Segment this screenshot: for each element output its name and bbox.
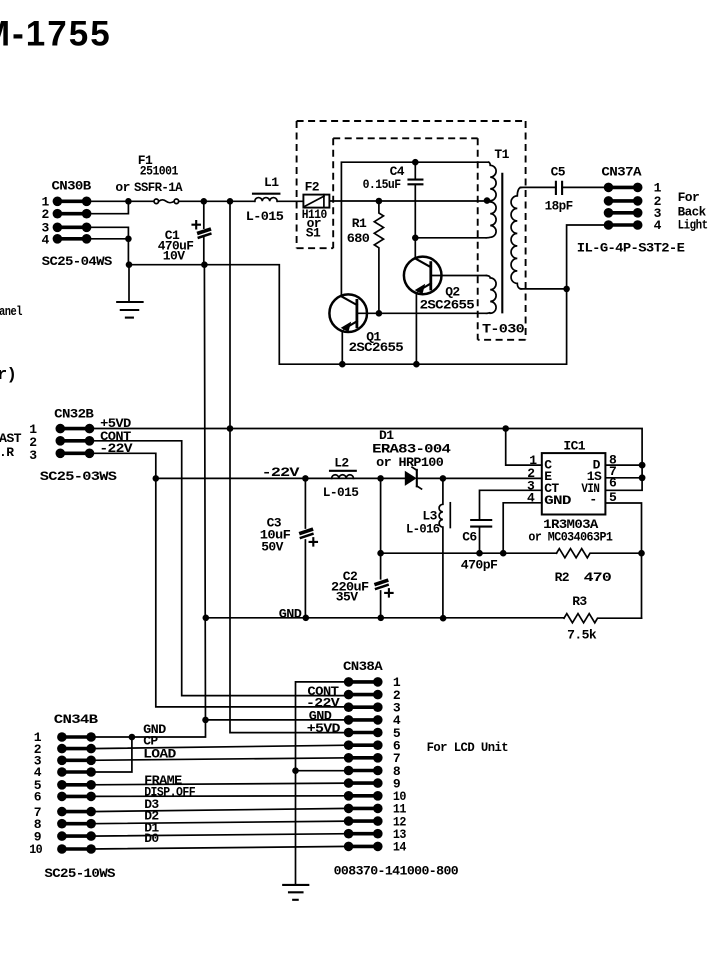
junction L3 top: [440, 475, 447, 482]
capacitor C3 (electrolytic): [299, 478, 317, 617]
junction CN34B pin1/pin4 tie: [129, 734, 136, 741]
junction CN38A pin8 / chassis column: [292, 767, 299, 774]
svg-text:CN30B: CN30B: [52, 178, 92, 193]
resistor R2: [557, 549, 642, 558]
wire IC pin3 to C6: [480, 490, 542, 519]
svg-text:For: For: [678, 190, 700, 205]
dashed box around fuse F2 (bottom edge): [297, 247, 334, 249]
svg-text:CN32B: CN32B: [54, 407, 94, 422]
label For Back Light: [678, 190, 708, 233]
svg-text:SSFR-1A: SSFR-1A: [134, 180, 183, 195]
svg-text:GND: GND: [279, 606, 302, 621]
fuse F2: [303, 195, 329, 208]
wire L1 to F2: [277, 200, 303, 202]
wire IC pin7 to +5VD tie: [605, 477, 642, 479]
svg-text:4: 4: [42, 233, 50, 248]
svg-text:6: 6: [609, 475, 617, 490]
svg-text:CN38A: CN38A: [343, 659, 383, 674]
junction +5VD column top: [227, 198, 234, 205]
junction C3 bottom: [303, 615, 310, 622]
wire CN38A pin4 branch from GND column: [206, 719, 349, 721]
wire LOAD: CN34B pin3 to CN38A pin7: [90, 758, 348, 761]
CN38A pin numbers 1-14: [393, 675, 407, 855]
transformer T1 primary winding: [486, 162, 496, 238]
wire CN38A pin8 to chassis column: [296, 770, 349, 772]
svg-text:10V: 10V: [163, 249, 185, 264]
junction CN30B pin1/pin2: [125, 198, 132, 205]
svg-text:F2: F2: [305, 179, 320, 194]
svg-text:C6: C6: [462, 529, 477, 544]
capacitor C2 (electrolytic): [374, 478, 393, 617]
svg-text:L-015: L-015: [323, 485, 359, 500]
wire -22V column down to CN38A pin3: [156, 478, 349, 707]
svg-text:-22V: -22V: [262, 465, 300, 480]
junction +5VD column crossing: [227, 425, 234, 432]
wire Q1 base to feedback winding bottom: [379, 312, 487, 314]
wire CONT net: CN32B pin2 down to CN38A pin2: [87, 441, 349, 696]
capacitor C4: [409, 162, 423, 257]
wire D3: CN34B pin7 to CN38A pin11: [90, 808, 348, 811]
svg-text:T-030: T-030: [482, 322, 525, 337]
svg-text:For LCD Unit: For LCD Unit: [427, 740, 509, 755]
svg-text:IL-G-4P-S3T2-E: IL-G-4P-S3T2-E: [577, 241, 685, 256]
svg-text:SC25-03WS: SC25-03WS: [40, 469, 117, 484]
svg-text:18pF: 18pF: [545, 198, 574, 213]
capacitor C1 (electrolytic) leads: [203, 201, 205, 264]
svg-text:50V: 50V: [261, 540, 283, 555]
junction CN30B pin3/pin4: [125, 236, 132, 243]
wire C5 to CN37A pin1: [562, 186, 608, 188]
junction C1 bottom / GND column: [201, 261, 208, 268]
svg-text:LOAD: LOAD: [143, 746, 176, 761]
svg-text:R1: R1: [352, 216, 367, 231]
junction C3 top: [302, 475, 309, 482]
inductor L2: [330, 471, 356, 479]
wire FRAME: CN34B pin5 to CN38A pin9: [90, 783, 348, 785]
svg-text:SC25-10WS: SC25-10WS: [44, 866, 115, 881]
wire IC pin4 to mid node: [503, 503, 542, 553]
wire T1 secondary top to C5: [521, 186, 556, 188]
svg-text:or MC034063P1: or MC034063P1: [528, 530, 613, 545]
transistor Q1: [329, 294, 378, 364]
CN32B pin numbers 1-3: [29, 422, 37, 463]
IC1 right pin labels D 1S VIN dash: [581, 458, 602, 507]
transformer T1 core: [501, 174, 503, 312]
junction L3 bottom: [440, 615, 447, 622]
CN30B pin numbers 1-4: [42, 195, 50, 248]
dashed inverter module boundary (outer box): [297, 121, 526, 340]
IC1 pin numbers 1-4: [527, 453, 537, 506]
CN37A pin numbers 1-4: [654, 181, 662, 234]
svg-text:S1: S1: [306, 225, 321, 240]
wire Q1 collector / top rail to T1 primary top: [341, 162, 488, 296]
svg-text:or HRP100: or HRP100: [376, 455, 444, 470]
label or SSFR-1A: [115, 180, 182, 195]
IC U1 box IC1: [542, 453, 606, 514]
wire CN30B pin4 to ground column: [87, 239, 128, 265]
svg-text:R3: R3: [572, 594, 587, 609]
junction IC GND pin node: [500, 550, 507, 557]
CN34B pin numbers 1-10: [29, 730, 43, 857]
junction R2 right / pin5 column: [638, 550, 645, 557]
junction Q1 base / R1 bottom: [376, 310, 383, 317]
svg-text:T1: T1: [494, 147, 509, 162]
wire CN30B pin2 jog up to pin1 node: [87, 201, 128, 213]
svg-text:D0: D0: [144, 831, 159, 846]
wire +V rail from CN30B node to fuse F1: [128, 200, 154, 202]
junction C1 top: [201, 198, 208, 205]
junction Q2 emitter on return rail: [413, 361, 420, 368]
wire CN30B pin3 jog down to pin4 node: [87, 227, 128, 239]
wire IC pin1 branch: [506, 429, 542, 466]
IC1 left pin labels C E CT GND: [544, 458, 571, 508]
junction C4 top: [412, 159, 419, 166]
connector CN32B pins 1-3: [56, 424, 95, 458]
wire ground rail to oscillator return: [129, 225, 609, 364]
svg-text:GND: GND: [544, 493, 571, 508]
svg-text:SC25-04WS: SC25-04WS: [42, 254, 113, 269]
junction C4 bottom / Q2 collector: [412, 235, 419, 242]
dashed oscillator inner box: [333, 138, 478, 339]
junction IC pin7 tie: [639, 474, 646, 481]
junction IC pin8 tie: [639, 462, 646, 469]
wire D0: CN34B pin10 to CN38A pin14: [90, 846, 348, 849]
wire IC pin5 down to R3: [605, 503, 641, 618]
junction C6 bottom: [476, 550, 483, 557]
wire +5VD column from top rail to CN38A pin5: [230, 201, 349, 732]
wire DISP.OFF: CN34B pin6 to CN38A pin10: [90, 795, 348, 798]
svg-text:3: 3: [29, 448, 37, 463]
svg-text:Light: Light: [678, 218, 708, 233]
svg-text:0.15uF: 0.15uF: [363, 177, 402, 192]
connector CN30B pins 1-4: [53, 197, 92, 244]
svg-text:CN34B: CN34B: [54, 712, 98, 727]
junction secondary bottom / CN37A pin4 column: [563, 286, 570, 293]
wire CN34B pin4 jog to pin1 GND: [90, 737, 132, 772]
svg-text:008370-141000-800: 008370-141000-800: [334, 864, 459, 879]
capacitor C5: [556, 182, 562, 194]
wire CN32B pin3 to -22V column: [87, 453, 156, 478]
resistor R3: [564, 614, 642, 623]
wire CP: CN34B pin2 to CN38A pin6: [90, 745, 348, 748]
junction T1 center tap: [484, 197, 491, 204]
svg-text:CN37A: CN37A: [601, 165, 641, 180]
svg-text:L-015: L-015: [246, 209, 284, 224]
junction C2 top / D1 anode node: [377, 475, 384, 482]
svg-text:680: 680: [347, 231, 370, 246]
svg-text:M-1755: M-1755: [0, 14, 112, 53]
wire C4 bottom to T1 primary bottom: [415, 237, 486, 239]
ground symbol stem (top left): [128, 265, 130, 302]
capacitor C6: [471, 520, 491, 553]
svg-text:L1: L1: [264, 175, 279, 190]
wire +5VD net: CN32B pin1 across to IC pins 8/7/6: [87, 429, 642, 491]
svg-text:4: 4: [654, 218, 662, 233]
plus sign C1: [193, 221, 200, 228]
inductor L3 with core: [439, 478, 450, 618]
junction -22V rail branch: [153, 475, 160, 482]
inductor L1: [253, 194, 279, 202]
svg-text:or: or: [115, 180, 129, 195]
wire D1: CN34B pin9 to CN38A pin13: [90, 834, 348, 836]
wire GND column from C1 to CN34B pin1: [90, 265, 205, 737]
wire GND rail: [205, 617, 564, 619]
junction ground rail start: [126, 261, 133, 268]
wire D1 cathode to IC pin2: [418, 477, 542, 479]
wire main rail F2 to T1 center tap: [329, 200, 487, 202]
connector CN38A pins 1-14: [344, 677, 383, 851]
transistor Q2: [404, 257, 486, 365]
svg-text:470pF: 470pF: [461, 558, 498, 573]
svg-text:r): r): [0, 366, 16, 385]
ground symbol (bottom chassis): [283, 885, 308, 900]
svg-text:35V: 35V: [336, 589, 358, 604]
svg-text:470: 470: [584, 570, 613, 585]
wire F1 to L1: [179, 200, 255, 202]
connector CN34B pins 1-10: [57, 732, 96, 854]
wire CN30B pin1 to fuse F1 junction: [87, 200, 128, 202]
wire IC pin8 to +5VD tie: [605, 464, 642, 466]
svg-text:2SC2655: 2SC2655: [349, 340, 404, 355]
svg-text:10: 10: [29, 842, 43, 857]
junction GND column / GND rail: [203, 615, 210, 622]
svg-text:2SC2655: 2SC2655: [420, 298, 475, 313]
svg-text:R2: R2: [555, 570, 570, 585]
transformer T1 secondary winding: [511, 187, 521, 289]
wire T1 secondary bottom to pin4 column: [521, 288, 567, 290]
wire mid line C2 tap to R2: [381, 552, 557, 554]
junction C2 column tap: [377, 550, 384, 557]
svg-text:L2: L2: [334, 455, 349, 470]
svg-text:+5VD: +5VD: [307, 721, 341, 736]
svg-text:251001: 251001: [140, 163, 179, 178]
connector CN37A pins 1-4: [604, 183, 643, 230]
capacitor C1 hatched plates: [197, 227, 212, 239]
svg-text:14: 14: [393, 840, 407, 855]
wire CN38A pin1 to chassis ground column: [296, 682, 349, 885]
wire D2: CN34B pin8 to CN38A pin12: [90, 821, 348, 824]
junction C2 bottom: [378, 615, 385, 622]
svg-text:anel: anel: [0, 304, 23, 319]
svg-text:L-016: L-016: [406, 521, 440, 536]
transformer T1 feedback winding: [486, 276, 496, 314]
wire -22V rail to diode D1: [156, 477, 405, 479]
ground (top left): [117, 302, 142, 318]
junction IC pin1 branch: [502, 425, 509, 432]
svg-text:6: 6: [34, 790, 42, 805]
svg-text:IC1: IC1: [563, 439, 585, 454]
junction R1 top: [376, 198, 383, 205]
IC1 pin numbers 8 7 6 5: [609, 452, 617, 505]
resistor R1: [374, 201, 383, 313]
svg-text:7.5k: 7.5k: [567, 627, 597, 642]
svg-text:C5: C5: [551, 165, 566, 180]
svg-text:-: -: [589, 492, 596, 507]
diode D1: [405, 467, 422, 489]
junction Q1 emitter on return rail: [339, 361, 346, 368]
fuse F1: [154, 199, 179, 204]
svg-text:.R: .R: [0, 445, 14, 460]
junction GND column / CN38A pin4 wire: [202, 717, 209, 724]
